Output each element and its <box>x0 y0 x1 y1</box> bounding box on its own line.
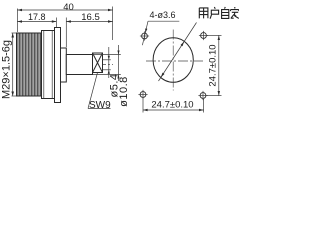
centerline <box>42 64 113 66</box>
user-defined text <box>199 7 239 19</box>
svg-text:24.7±0.10: 24.7±0.10 <box>151 100 193 111</box>
svg-text:24.7±0.10: 24.7±0.10 <box>208 44 219 86</box>
用 <box>199 8 208 19</box>
top dim 17.8 <box>17 18 56 28</box>
top dim 16.5 <box>66 18 112 48</box>
dim o10.8 <box>93 45 121 81</box>
dim M29x1.5-6g left <box>12 33 17 96</box>
SW9 label <box>88 73 111 109</box>
diagonal leader (user-defined) <box>159 23 197 82</box>
svg-text:ø10.8: ø10.8 <box>118 76 130 107</box>
big circle (panel hole) <box>153 38 193 83</box>
body ring <box>42 31 55 99</box>
bottom dim 24.7+-0.10 <box>143 99 204 113</box>
hex SW9 with X <box>93 53 103 73</box>
crosshair centerlines of big circle <box>146 30 203 91</box>
rear cylinder <box>66 55 92 75</box>
thread M29 body with hatch <box>17 33 42 96</box>
dim o5.4 <box>103 47 111 78</box>
svg-text:4-ø3.6: 4-ø3.6 <box>150 10 176 20</box>
定 <box>231 7 239 18</box>
top dim 40 <box>17 7 112 41</box>
flange plate <box>55 28 61 103</box>
自 <box>222 7 229 18</box>
svg-text:16.5: 16.5 <box>81 12 100 23</box>
户 <box>210 7 219 19</box>
shoulder <box>61 48 67 82</box>
svg-text:40: 40 <box>63 2 74 13</box>
svg-text:17.8: 17.8 <box>28 12 46 22</box>
svg-text:SW9: SW9 <box>89 100 111 111</box>
svg-text:M29×1.5-6g: M29×1.5-6g <box>1 40 13 99</box>
mounting holes 4x <box>140 31 149 40</box>
right dim 24.7+-0.10 <box>207 35 222 95</box>
